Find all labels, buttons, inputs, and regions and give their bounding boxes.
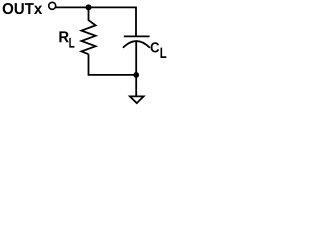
junction node B (ground node) — [133, 72, 139, 78]
wire node A down to resistor — [88, 7, 90, 20]
label RL subscript — [69, 38, 74, 48]
wire node A to capacitor top — [89, 7, 137, 36]
wire terminal to node A — [56, 6, 89, 8]
wire capacitor to ground — [135, 41, 137, 96]
wire resistor bottom to ground node — [89, 54, 137, 75]
junction node A — [86, 4, 92, 10]
resistor RL zigzag — [81, 20, 95, 54]
label CL — [151, 42, 160, 52]
ground — [130, 96, 144, 103]
label CL subscript — [161, 48, 167, 58]
capacitor CL top plate — [124, 35, 150, 37]
terminal OUTx (open circle) — [49, 2, 56, 9]
label OUTx — [3, 3, 42, 14]
capacitor CL bottom plate (arc) — [123, 41, 150, 48]
label RL — [59, 31, 68, 42]
